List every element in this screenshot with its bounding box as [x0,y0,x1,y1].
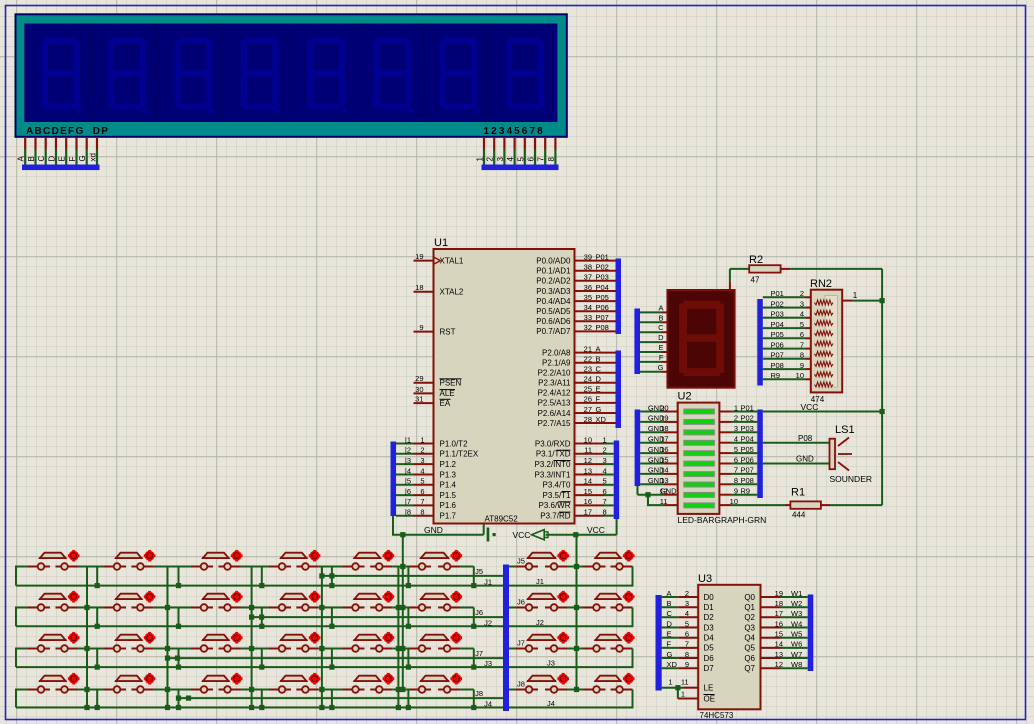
svg-text:W6: W6 [791,640,802,649]
wire R2 left to display anode [729,269,731,281]
pin 6 wire [534,138,536,150]
wire keypad col5 row2 drop [407,608,409,627]
wire U2 pin12 loop [637,484,639,494]
svg-text:18: 18 [775,599,783,608]
svg-text:P3.2/INT0: P3.2/INT0 [534,460,571,469]
U1 pin 13 P3.3 / net 4 [575,474,605,476]
svg-text:2: 2 [734,414,738,423]
svg-text:34: 34 [584,303,592,312]
svg-text:1: 1 [668,678,672,687]
wire keypad row 1 terminals [16,567,28,586]
svg-text:3: 3 [800,299,804,308]
svg-text:P1.4: P1.4 [440,481,457,490]
RN2 element 5 [815,341,834,346]
svg-text:12: 12 [660,487,668,496]
U1 pin 8 P1.7 [414,515,434,517]
bus J3 [16,666,503,668]
red 7-segment display [668,290,735,388]
svg-text:16: 16 [660,445,668,454]
U2 LED segment 10 [684,503,715,508]
svg-text:5: 5 [734,445,738,454]
svg-text:P01: P01 [771,289,784,298]
wire keypad column 4 [321,567,323,708]
svg-text:17: 17 [584,508,592,517]
push button SW32 [584,673,635,693]
svg-text:EA: EA [440,399,451,408]
svg-text:LED-BARGRAPH-GRN: LED-BARGRAPH-GRN [678,515,767,525]
P3 terminal bar [614,441,620,520]
wire row 3 drop to bus J3 [473,649,475,668]
svg-text:23: 23 [584,365,592,374]
U1 pin 4 P1.3 [414,474,434,476]
RN2 pin 7 net P06 [763,348,806,350]
U2 pin 5 net P05 [719,452,731,454]
svg-text:XTAL2: XTAL2 [440,288,464,297]
svg-text:B: B [27,156,36,161]
push button SW24 [584,632,635,652]
wire J6 right group [509,607,516,609]
svg-text:12: 12 [584,456,592,465]
wire GND column [402,535,404,690]
pin 8 wire [554,138,556,150]
RN2 pin 4 net P03 [763,317,806,319]
pin B wire [34,138,36,150]
wire row 1 drop to bus J1 [473,567,475,586]
svg-text:J4: J4 [484,700,492,709]
P0 terminal bar [616,259,622,335]
svg-text:P07: P07 [596,313,609,322]
svg-text:3: 3 [420,456,424,465]
U1 pin 31 EA [414,402,434,404]
push button SW3 [191,550,243,570]
svg-text:37: 37 [584,273,592,282]
svg-text:G: G [658,363,664,372]
svg-text:F: F [667,640,672,649]
pin C wire [45,138,47,150]
push button SW30 [409,673,462,693]
U3 pin 3 D1 net B [662,606,679,608]
U3 pin 7 D5 net F [662,647,679,649]
wire J7 [168,649,504,659]
wire right vertical rail [881,269,883,505]
push button SW8 [584,550,635,570]
U1 pin 18 XTAL2 [414,291,434,293]
U1 pin 17 P3.7 / net 8 [575,515,605,517]
svg-text:26: 26 [584,395,592,404]
svg-text:14: 14 [584,477,592,486]
pin 5 wire [524,138,526,150]
svg-text:P0.1/AD1: P0.1/AD1 [536,267,571,276]
svg-text:OE: OE [704,695,716,704]
svg-text:J6: J6 [475,608,483,617]
svg-text:8: 8 [603,508,607,517]
svg-text:R2: R2 [749,254,763,266]
pin 1 wire [483,138,485,150]
U3 pin 8 D6 net G [662,657,679,659]
U1 pin 11 P3.1 / net 2 [575,453,605,455]
svg-text:Q3: Q3 [744,623,755,632]
svg-text:5: 5 [603,477,607,486]
display digit 3 [175,37,215,114]
push button SW2 [104,550,155,570]
svg-text:P3.3/INT1: P3.3/INT1 [534,470,571,479]
wire VCC rail [546,534,617,536]
pin F wire [75,138,77,150]
wire keypad column 3 [251,567,253,708]
svg-text:31: 31 [415,395,423,404]
wire U1 GND pin to rail [483,524,485,535]
svg-text:P03: P03 [771,310,784,319]
svg-text:P02: P02 [741,414,754,423]
svg-text:16: 16 [584,497,592,506]
push button SW17 [28,632,80,652]
U1 pin 26 P2.5 / net F [575,402,616,404]
svg-text:U1: U1 [434,237,448,249]
svg-text:12: 12 [775,660,783,669]
svg-text:P1.5: P1.5 [440,491,457,500]
svg-text:|4: |4 [405,466,411,475]
U1 pin 28 P2.7 / net XD [575,422,616,424]
left header terminal bar [22,165,100,171]
svg-text:E: E [58,156,67,161]
svg-text:2: 2 [800,289,804,298]
RN2 element 1 [815,300,834,305]
svg-text:24: 24 [584,375,592,384]
wire J8 right group [509,689,516,691]
U1 pin 14 P3.4 / net 5 [575,484,605,486]
push button SW20 [269,632,320,652]
svg-text:F: F [659,353,664,362]
keypad terminal bar [503,565,509,712]
svg-text:1: 1 [681,690,685,699]
svg-text:F: F [68,157,77,162]
svg-text:14: 14 [775,640,783,649]
right header terminal bar [482,165,559,171]
U2 LED segment 9 [684,492,715,497]
svg-text:P08: P08 [798,434,813,443]
svg-text:U2: U2 [678,391,692,403]
U3 pin 12 Q7 net W8 [761,667,781,669]
RN2 pin 10 net R9 [763,378,806,380]
svg-text:P3.0/RXD: P3.0/RXD [535,439,571,448]
svg-text:1: 1 [476,157,485,162]
svg-text:Q5: Q5 [744,644,755,653]
RN2 pin 9 net P08 [763,368,806,370]
svg-text:6: 6 [420,487,424,496]
push button SW10 [104,591,155,611]
svg-text:D0: D0 [704,593,715,602]
digit separator [288,24,290,123]
svg-text:G: G [596,405,602,414]
svg-text:47: 47 [751,276,760,285]
wire keypad row 2 terminals [16,608,28,627]
svg-text:33: 33 [584,313,592,322]
push button SW9 [28,591,80,611]
display segment pin A [640,311,662,313]
U3 pin 11 LE [662,687,683,689]
wire keypad col2 row4 drop [178,690,180,708]
svg-text:22: 22 [584,354,592,363]
svg-text:5: 5 [685,619,689,628]
svg-text:A: A [667,589,672,598]
svg-text:B: B [667,599,672,608]
svg-text:P0.6/AD6: P0.6/AD6 [536,317,571,326]
svg-text:Q6: Q6 [744,654,755,663]
P3 overlines TXD INT0 T1 WR RD [557,449,571,451]
svg-text:6: 6 [603,487,607,496]
ground terminal symbol [487,528,490,542]
digit separator [156,24,158,123]
svg-text:39: 39 [584,252,592,261]
svg-text:1: 1 [420,435,424,444]
RN2 pin 8 net P07 [763,358,806,360]
svg-text:W2: W2 [791,599,802,608]
svg-text:4: 4 [800,310,804,319]
svg-text:2: 2 [603,446,607,455]
U2 pin 10 to R1 [719,504,731,506]
svg-text:P08: P08 [596,323,609,332]
svg-text:7: 7 [734,466,738,475]
pin G wire [86,138,88,150]
microcontroller U1 AT89C52 [434,249,575,524]
svg-text:Q4: Q4 [744,633,755,642]
push button SW23 [516,632,569,652]
wire P08 to sounder [763,442,830,444]
U3 pin 5 D3 net D [662,627,679,629]
svg-text:P0.3/AD3: P0.3/AD3 [536,287,571,296]
svg-text:38: 38 [584,263,592,272]
svg-text:P2.4/A12: P2.4/A12 [538,389,571,398]
svg-text:4: 4 [685,609,689,618]
svg-text:13: 13 [584,466,592,475]
U1 pin 35 P0.4 / net P05 [575,300,616,302]
push button SW4 [269,550,320,570]
svg-text:8: 8 [420,508,424,517]
svg-text:|6: |6 [405,487,411,496]
push button SW12 [269,591,320,611]
svg-text:G: G [667,650,673,659]
svg-text:J8: J8 [475,689,483,698]
wire keypad col4 row1 drop [331,567,333,586]
wire keypad col5 row1 drop [407,567,409,586]
svg-text:5: 5 [516,157,525,162]
svg-text:10: 10 [796,371,804,380]
push button SW27 [191,673,243,693]
svg-text:P2.3/A11: P2.3/A11 [538,379,571,388]
svg-text:4: 4 [734,435,738,444]
P2 terminal bar [616,351,622,429]
svg-text:Q2: Q2 [744,613,755,622]
U1 pin 7 P1.6 [414,504,434,506]
8-digit multiplexed 7-segment display module [16,14,567,137]
wire keypad col2 row3 drop [178,649,180,668]
svg-text:Q7: Q7 [744,664,755,673]
svg-text:6: 6 [734,455,738,464]
RN2 element 6 [815,351,834,356]
svg-text:35: 35 [584,293,592,302]
display digit 6 [374,37,414,114]
svg-text:J7: J7 [517,639,525,648]
display segment pin F [640,361,662,363]
U3 pin 14 Q5 net W6 [761,647,781,649]
svg-text:4: 4 [420,466,424,475]
svg-text:J2: J2 [536,618,544,627]
U1 pin 19 XTAL1 [414,260,434,262]
U1 pin 29 PSEN [414,382,434,384]
svg-text:5: 5 [420,477,424,486]
push button SW19 [191,632,243,652]
svg-text:P2.5/A13: P2.5/A13 [538,399,571,408]
U2 pin 1 net P01 [719,411,731,413]
junction [880,298,885,303]
display digit 5 [307,37,347,114]
svg-text:GND: GND [424,525,443,535]
U1 pin 21 P2.0 / net A [575,352,616,354]
display segment pin D [640,341,662,343]
svg-text:VCC: VCC [513,530,531,540]
svg-text:74HC573: 74HC573 [700,711,734,720]
svg-text:7: 7 [800,340,804,349]
digit separator [222,24,224,123]
svg-text:11: 11 [660,497,668,506]
U2 LED segment 2 [684,419,715,424]
junction [675,685,680,690]
svg-text:P05: P05 [741,445,754,454]
RN2 element 2 [815,310,834,315]
U1 pin 12 P3.2 / net 3 [575,463,605,465]
svg-text:P05: P05 [771,330,784,339]
U1 pin 10 P3.0 / net 1 [575,443,605,445]
svg-text:W7: W7 [791,650,802,659]
svg-text:9: 9 [419,323,423,332]
digit separator [421,24,423,123]
svg-text:P0.7/AD7: P0.7/AD7 [536,327,571,336]
svg-text:U3: U3 [698,573,712,585]
push button SW5 [343,550,395,570]
U2 pin 4 net P04 [719,442,731,444]
svg-text:4: 4 [603,466,607,475]
svg-text:21: 21 [584,344,592,353]
push button SW26 [104,673,155,693]
svg-text:LS1: LS1 [835,424,855,436]
svg-text:P06: P06 [771,340,784,349]
svg-text:D: D [658,333,664,342]
push button SW28 [269,673,320,693]
svg-text:8: 8 [734,476,738,485]
junction [400,532,405,537]
svg-text:W3: W3 [791,609,802,618]
push button SW7 [516,550,569,570]
svg-text:2: 2 [486,157,495,162]
svg-text:P1.6: P1.6 [440,501,457,510]
RN2 terminal bar [757,299,763,386]
svg-text:J6: J6 [517,598,525,607]
display digit 2 [108,37,148,114]
svg-text:P06: P06 [596,303,609,312]
wire R2 right to vertical rail [781,268,791,270]
wire J8 [179,690,504,699]
svg-text:10: 10 [730,497,738,506]
svg-text:3: 3 [734,424,738,433]
U3 left terminal bar [656,595,662,691]
svg-text:9: 9 [685,660,689,669]
svg-text:29: 29 [415,374,423,383]
svg-text:1: 1 [603,435,607,444]
pin 3 wire [503,138,505,150]
RN2 pin 1 [842,300,852,302]
wire keypad col1 row3 drop [96,649,98,668]
svg-text:XTAL1: XTAL1 [440,256,464,265]
pin 2 wire [493,138,495,150]
svg-text:J4: J4 [547,699,555,708]
svg-text:6: 6 [685,629,689,638]
svg-text:3: 3 [603,456,607,465]
wire keypad col4 row2 drop [331,608,333,627]
svg-text:P04: P04 [771,320,784,329]
U1 pin 37 P0.2 / net P03 [575,280,616,282]
XTAL1 clock marker [434,257,441,264]
U1 pin 6 P1.5 [414,494,434,496]
svg-text:6: 6 [527,157,536,162]
svg-text:D3: D3 [704,623,715,632]
RN2 pin 6 net P05 [763,337,806,339]
U2 pin 14 net GND [640,473,664,475]
svg-text:W5: W5 [791,629,802,638]
svg-text:P1.2: P1.2 [440,460,457,469]
svg-text:E: E [658,343,663,352]
wire J7 right group [509,648,516,650]
svg-text:Q0: Q0 [744,593,755,602]
svg-text:444: 444 [792,511,806,520]
RN2 pin 2 net P01 [763,296,806,298]
svg-text:P0.0/AD0: P0.0/AD0 [536,256,571,265]
svg-text:D7: D7 [704,664,715,673]
svg-text:30: 30 [415,385,423,394]
display segment pin B [640,321,662,323]
U1 pin 25 P2.4 / net E [575,392,616,394]
wire J5 [322,567,503,576]
svg-text:P1.1/T2EX: P1.1/T2EX [440,450,479,459]
RN2 element 8 [815,372,834,377]
svg-text:P2.6/A14: P2.6/A14 [538,409,571,418]
wire keypad column 2 [167,567,169,708]
svg-text:|8: |8 [405,508,411,517]
svg-text:xd: xd [89,153,98,161]
U3 pin 15 Q4 net W5 [761,637,781,639]
wire keypad column 5 [397,567,399,708]
svg-text:D5: D5 [704,644,715,653]
svg-text:P3.4/T0: P3.4/T0 [542,481,571,490]
pin 7 wire [544,138,546,150]
svg-text:P3.7/RD: P3.7/RD [540,512,570,521]
svg-text:P02: P02 [771,299,784,308]
svg-text:25: 25 [584,385,592,394]
U2 pin 13 net GND [640,483,664,485]
wire VCC column (right keypad group) [576,535,578,690]
U2 left terminal bar [635,410,641,487]
svg-text:P04: P04 [596,283,609,292]
display segment pin E [640,351,662,353]
display digit 8 [506,37,546,114]
U3 pin 18 Q1 net W2 [761,606,781,608]
pin A wire [24,138,26,150]
svg-text:PSEN: PSEN [440,379,462,388]
U2 pin 2 net P02 [719,421,731,423]
svg-text:19: 19 [660,414,668,423]
push button SW18 [104,632,155,652]
wire J1 right group [509,567,633,586]
U3 pin 6 D4 net E [662,637,679,639]
